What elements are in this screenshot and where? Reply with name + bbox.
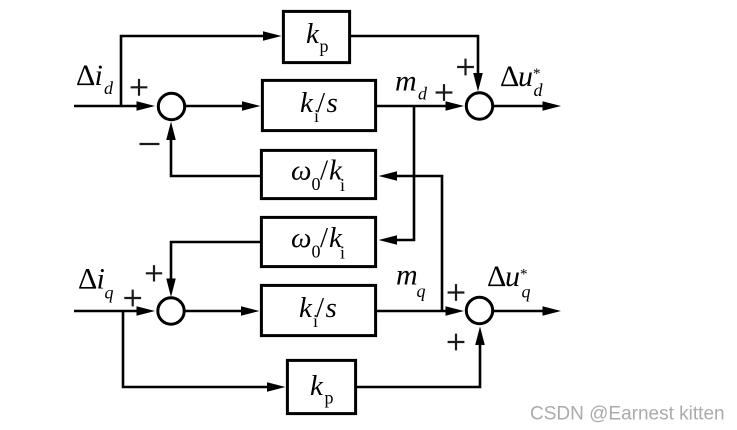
svg-text:u: u <box>518 60 533 93</box>
svg-text:s: s <box>326 292 337 324</box>
svg-text:/: / <box>316 292 325 324</box>
svg-text:Δ: Δ <box>76 59 95 92</box>
svg-text:/: / <box>317 87 326 119</box>
svg-text:k: k <box>329 222 343 254</box>
svg-text:k: k <box>329 155 343 187</box>
svg-text:k: k <box>310 370 324 402</box>
svg-text:*: * <box>520 267 528 283</box>
svg-text:k: k <box>306 18 320 50</box>
svg-text:d: d <box>104 78 114 98</box>
svg-text:Δ: Δ <box>487 260 506 293</box>
svg-text:q: q <box>522 282 531 302</box>
svg-text:d: d <box>534 80 544 100</box>
svg-text:k: k <box>299 292 313 324</box>
svg-text:k: k <box>300 87 314 119</box>
svg-text:/: / <box>320 155 329 187</box>
svg-text:ω: ω <box>291 155 311 187</box>
svg-text:Δ: Δ <box>78 263 97 296</box>
svg-text:CSDN @Earnest kitten: CSDN @Earnest kitten <box>530 404 725 425</box>
svg-text:p: p <box>325 388 334 408</box>
svg-text:m: m <box>395 65 417 98</box>
svg-text:q: q <box>105 283 114 303</box>
svg-text:p: p <box>320 36 329 56</box>
svg-text:/: / <box>320 222 329 254</box>
svg-text:d: d <box>418 84 428 104</box>
svg-text:ω: ω <box>291 222 311 254</box>
svg-text:i: i <box>95 59 103 92</box>
svg-text:m: m <box>396 259 418 292</box>
svg-text:s: s <box>327 87 338 119</box>
svg-text:Δ: Δ <box>500 60 519 93</box>
svg-text:q: q <box>417 281 426 301</box>
svg-text:u: u <box>505 260 520 293</box>
svg-text:*: * <box>533 66 541 82</box>
